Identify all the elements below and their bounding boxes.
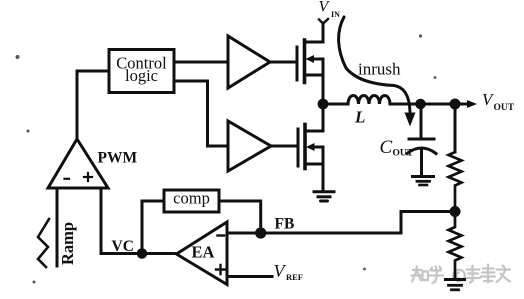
resistor R1 [449, 152, 462, 211]
node VC junction dot [137, 248, 148, 259]
ramp waveform symbol [38, 219, 49, 267]
wire ramp input (U1 -) [56, 188, 59, 266]
svg-text:OUT: OUT [494, 103, 515, 113]
wire comp to FB [219, 201, 261, 233]
control logic box [109, 50, 174, 93]
specks [16, 34, 437, 283]
svg-text:EA: EA [192, 243, 215, 262]
svg-text:logic: logic [125, 66, 158, 85]
node divider junction dot [450, 99, 461, 110]
transistor Q1 high-side NMOS [297, 19, 328, 104]
wire VC to comp box [142, 201, 164, 254]
watermark 知乎 @韦聿文 drawn as strokes (behind circuit) [412, 265, 511, 284]
wire U2 output to Q1 gate [270, 61, 297, 64]
op-amp EA [176, 222, 227, 285]
Vout arrowhead [467, 100, 477, 108]
node SW junction dot [318, 99, 329, 110]
buffer U3 (low-side driver) [228, 121, 271, 171]
wire control logic to buffer 1 [174, 61, 228, 64]
svg-text:L: L [354, 108, 365, 127]
svg-text:REF: REF [286, 272, 303, 282]
buffer U2 (high-side driver) [228, 36, 270, 88]
resistor R2 [449, 212, 462, 280]
wire control logic to buffer 2 [174, 81, 228, 146]
inductor L [348, 96, 390, 105]
wire EA plus input to Vref [227, 275, 272, 278]
svg-text:inrush: inrush [358, 60, 401, 79]
wire VC node (U1 + input down to EA output) [101, 188, 176, 254]
svg-text:PWM: PWM [98, 150, 138, 167]
inrush current arrow [339, 17, 410, 112]
node FB junction dot on divider [450, 206, 461, 217]
wire PWM output to control logic [77, 71, 109, 140]
svg-text:IN: IN [331, 10, 340, 19]
wire SW to inductor [323, 103, 348, 106]
transistor Q2 low-side NMOS [298, 104, 323, 191]
wire inductor to Vout [390, 103, 468, 106]
ground below Q2 [314, 192, 334, 201]
ground below R2 [446, 280, 465, 290]
comp box [164, 190, 219, 212]
EA plus label [216, 265, 225, 274]
svg-text:OUT: OUT [393, 149, 414, 159]
U1 minus input label [65, 178, 70, 180]
node FB junction dot [255, 227, 266, 238]
svg-text:comp: comp [173, 189, 210, 208]
svg-text:FB: FB [275, 216, 295, 233]
capacitor C_OUT [407, 104, 436, 176]
wire U3 output to Q2 gate [271, 145, 298, 148]
svg-text:C: C [380, 137, 393, 158]
U1 plus input label [84, 173, 92, 181]
error amp EA wiring: minus input / FB wire [227, 212, 450, 234]
EA minus label [218, 234, 225, 236]
svg-text:Ramp: Ramp [58, 222, 77, 265]
svg-text:VC: VC [112, 238, 134, 255]
wire Vout to R1 [454, 104, 457, 152]
node Cout junction dot [415, 99, 426, 110]
ground below C_OUT [413, 177, 434, 186]
op-amp U1 PWM comparator [48, 139, 108, 188]
